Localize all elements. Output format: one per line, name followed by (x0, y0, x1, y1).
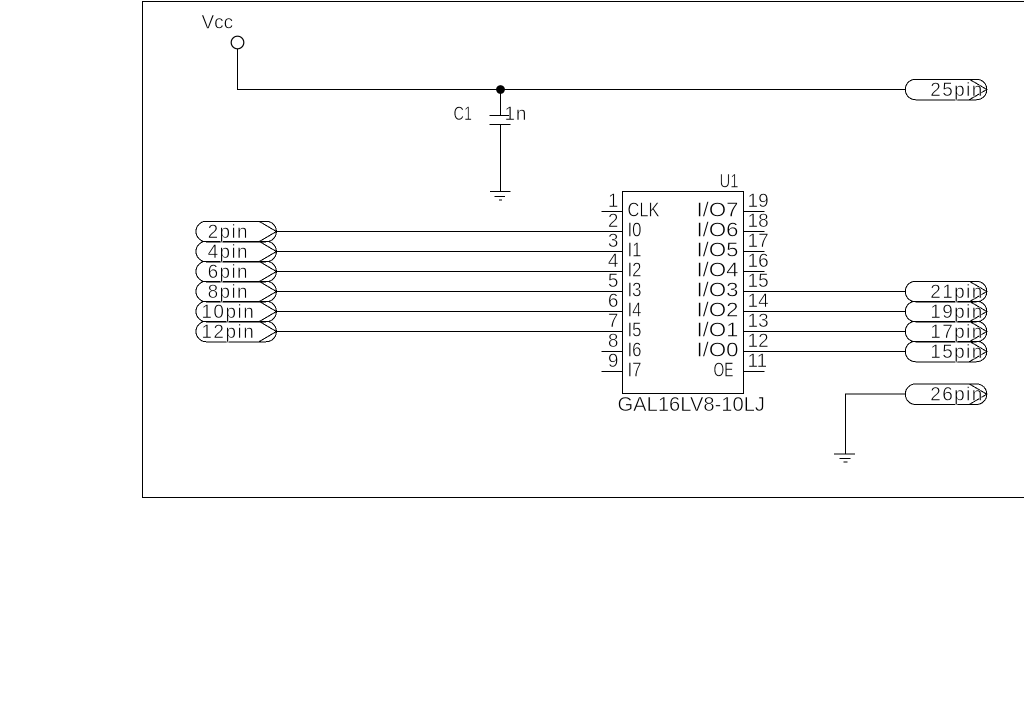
svg-text:6pin: 6pin (208, 262, 248, 283)
svg-text:10pin: 10pin (201, 302, 254, 323)
svg-text:18: 18 (748, 211, 769, 232)
svg-text:6: 6 (608, 291, 619, 312)
svg-text:7: 7 (608, 311, 619, 332)
svg-text:15pin: 15pin (930, 342, 982, 363)
svg-text:C1: C1 (454, 104, 473, 125)
svg-text:I/O5: I/O5 (697, 240, 739, 262)
svg-text:4: 4 (608, 251, 619, 272)
svg-text:I/O3: I/O3 (697, 280, 739, 302)
svg-text:I4: I4 (628, 300, 642, 322)
svg-text:GAL16LV8-10LJ: GAL16LV8-10LJ (618, 394, 766, 416)
svg-text:1n: 1n (505, 104, 527, 125)
svg-text:I6: I6 (628, 340, 642, 362)
svg-text:21pin: 21pin (930, 282, 982, 303)
svg-text:2: 2 (608, 211, 619, 232)
svg-text:4pin: 4pin (208, 242, 248, 263)
svg-text:5: 5 (608, 271, 619, 292)
svg-text:8pin: 8pin (208, 282, 248, 303)
svg-text:19pin: 19pin (930, 302, 982, 323)
svg-text:12: 12 (748, 331, 769, 352)
svg-text:25pin: 25pin (930, 80, 982, 101)
svg-text:3: 3 (608, 231, 619, 252)
svg-text:9: 9 (608, 351, 619, 372)
svg-text:OE: OE (714, 360, 734, 382)
svg-text:I7: I7 (628, 360, 642, 382)
svg-text:1: 1 (608, 191, 619, 212)
svg-text:8: 8 (608, 331, 619, 352)
svg-text:Vcc: Vcc (202, 13, 234, 34)
svg-text:I/O2: I/O2 (697, 300, 739, 322)
svg-text:I0: I0 (628, 220, 642, 242)
svg-text:15: 15 (748, 271, 769, 292)
svg-text:11: 11 (748, 351, 768, 372)
svg-text:26pin: 26pin (930, 385, 982, 406)
svg-text:I1: I1 (628, 240, 642, 262)
svg-text:17: 17 (748, 231, 769, 252)
svg-text:I/O0: I/O0 (697, 340, 739, 362)
svg-text:I/O1: I/O1 (697, 320, 739, 342)
svg-text:I/O6: I/O6 (697, 220, 739, 242)
svg-text:19: 19 (748, 191, 769, 212)
svg-text:I/O7: I/O7 (697, 200, 739, 222)
svg-text:I3: I3 (628, 280, 642, 302)
svg-text:I5: I5 (628, 320, 642, 342)
svg-text:17pin: 17pin (930, 322, 982, 343)
svg-text:13: 13 (748, 311, 769, 332)
svg-text:I/O4: I/O4 (697, 260, 739, 282)
svg-text:2pin: 2pin (208, 222, 248, 243)
svg-text:I2: I2 (628, 260, 642, 282)
svg-text:16: 16 (748, 251, 769, 272)
svg-text:14: 14 (748, 291, 770, 312)
svg-text:U1: U1 (720, 171, 739, 192)
svg-text:12pin: 12pin (201, 322, 254, 343)
svg-text:CLK: CLK (628, 200, 661, 222)
